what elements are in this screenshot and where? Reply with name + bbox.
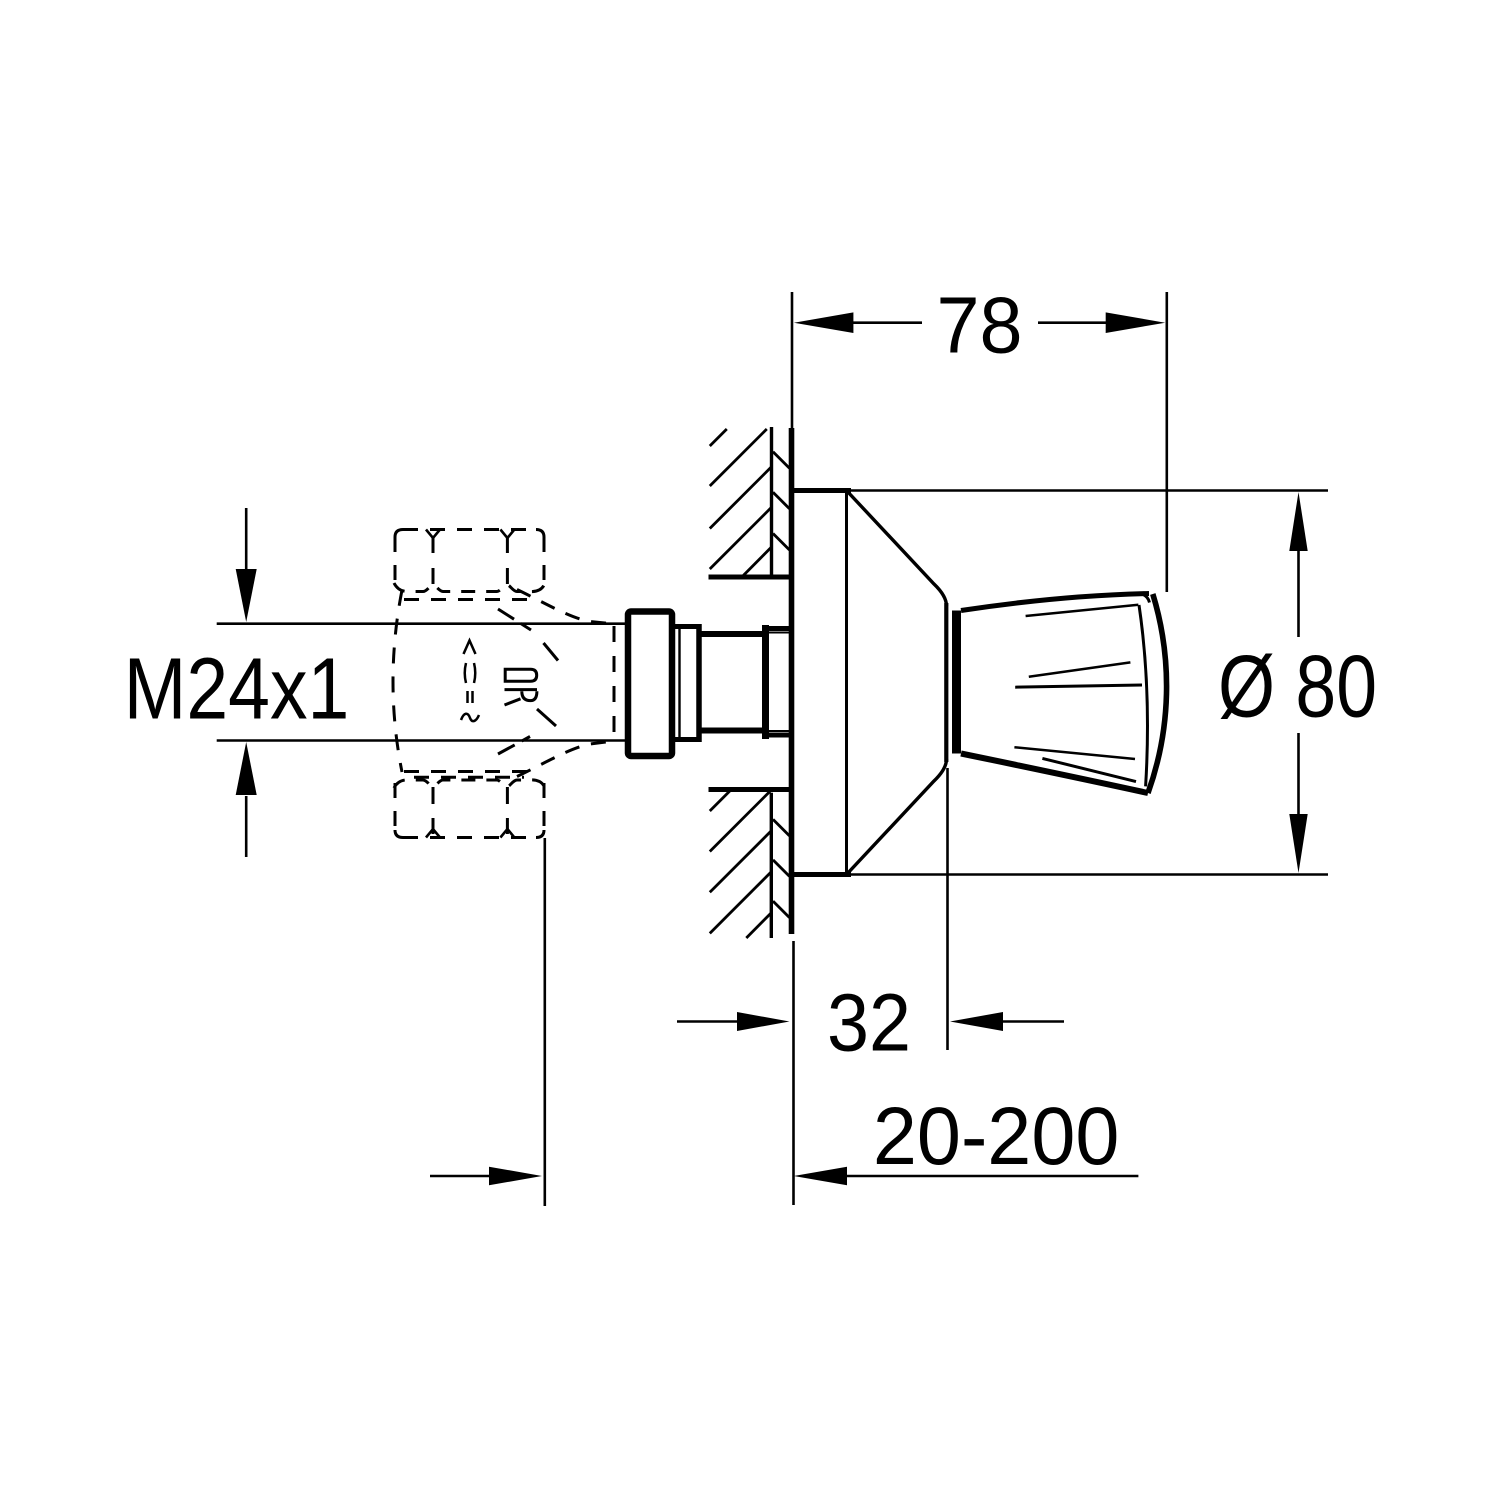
dimension 20-200 line and arrows	[430, 1175, 1138, 1178]
svg-text:78: 78	[937, 281, 1023, 370]
lower tile hatching	[773, 819, 790, 917]
upper wall hatching	[710, 429, 772, 576]
svg-text:Ø 80: Ø 80	[1218, 637, 1377, 736]
stem long cylinder	[699, 634, 764, 731]
upper wall bottom edge	[709, 575, 790, 580]
DR marking (rotated)	[505, 669, 538, 705]
valve body outline (dashed)	[393, 590, 614, 777]
stem step cylinder	[675, 624, 701, 742]
valve stem tube M24x1 outline	[217, 624, 625, 741]
stem end collar	[762, 625, 769, 739]
dimension 20-200 body extension line	[543, 838, 546, 1206]
stem flange	[628, 612, 672, 757]
wall face line	[789, 428, 795, 934]
lower wall top edge	[709, 787, 790, 792]
dimension 78 line and arrows	[851, 321, 1109, 324]
flow direction arrow (dashed)	[461, 641, 479, 722]
svg-text:32: 32	[827, 978, 911, 1069]
wall lower tile line	[770, 793, 773, 938]
svg-text:20-200: 20-200	[873, 1091, 1120, 1182]
dimension 78 extension line right (knob front)	[1166, 292, 1169, 592]
escutcheon bottom extension line (to diameter 80)	[850, 873, 1328, 876]
escutcheon flange	[789, 491, 948, 1051]
dimension 78 extension line left (wall face)	[791, 292, 794, 429]
upper tile hatching	[773, 452, 790, 550]
stem through-wall sleeve	[764, 629, 792, 736]
knob	[957, 594, 1167, 794]
dimension 32 line and arrows	[677, 1020, 1064, 1023]
valve body lower hex nut (dashed)	[394, 772, 545, 838]
lower wall hatching	[710, 791, 771, 938]
escutcheon top extension line (to diameter 80)	[850, 489, 1328, 492]
dimension 32 wall extension line	[792, 941, 795, 1205]
svg-text:M24x1: M24x1	[124, 641, 349, 738]
valve body upper hex nut (dashed)	[394, 530, 545, 600]
dimension diameter 80 line and arrows	[1297, 548, 1300, 818]
wall upper tile line	[770, 427, 773, 575]
knob flutes	[1014, 605, 1142, 782]
dimension M24x1 arrows	[245, 508, 248, 857]
